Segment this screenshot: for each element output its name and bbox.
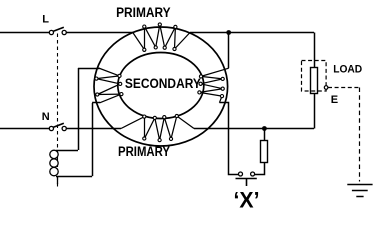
svg-text:PRIMARY: PRIMARY: [118, 144, 170, 159]
svg-text:‘X’: ‘X’: [234, 188, 260, 213]
svg-text:PRIMARY: PRIMARY: [116, 5, 171, 20]
svg-text:N: N: [42, 111, 50, 123]
svg-text:L: L: [42, 14, 49, 26]
svg-text:LOAD: LOAD: [333, 63, 362, 75]
svg-text:E: E: [331, 94, 338, 106]
svg-text:SECONDARY: SECONDARY: [125, 76, 201, 91]
